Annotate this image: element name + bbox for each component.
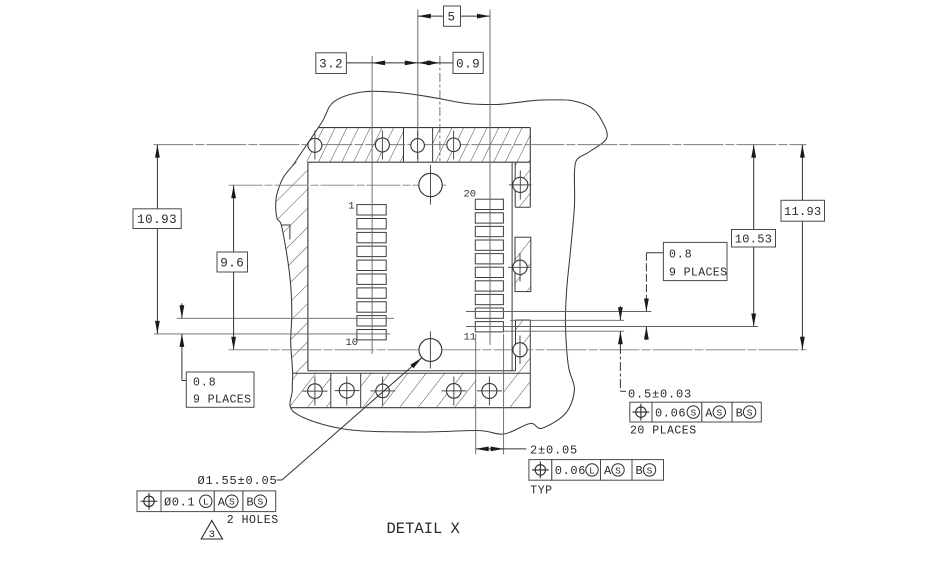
svg-text:0.06: 0.06 [555, 464, 586, 478]
svg-text:0.06: 0.06 [655, 406, 686, 420]
svg-text:Ø0.1: Ø0.1 [164, 496, 195, 510]
svg-text:3: 3 [209, 529, 215, 541]
centerline big hole top [229, 184, 447, 186]
extension line pad bottom left [154, 333, 390, 335]
svg-text:11: 11 [464, 332, 477, 344]
svg-text:S: S [716, 408, 722, 419]
svg-text:9.6: 9.6 [220, 256, 244, 270]
extension line pad bottom right [503, 330, 624, 332]
svg-text:B: B [636, 464, 643, 478]
svg-text:10.53: 10.53 [735, 232, 773, 246]
svg-text:1: 1 [348, 201, 354, 213]
extension line 0.9 right [439, 56, 441, 161]
svg-text:0.9: 0.9 [456, 57, 480, 71]
svg-text:X: X [451, 520, 461, 538]
extension line 2-dim left [475, 334, 477, 454]
svg-text:2±0.05: 2±0.05 [530, 444, 578, 458]
hole C3 strip3 [513, 336, 527, 365]
hole C1 strip1 [509, 171, 532, 200]
svg-text:TYP: TYP [530, 485, 552, 498]
hatch top band [290, 128, 404, 162]
svg-text:11.93: 11.93 [784, 205, 822, 219]
socket cavity edges [307, 162, 309, 371]
hatch mount strips [515, 163, 530, 208]
centerline bottom hole row [229, 349, 807, 351]
extension line pad length right upper [510, 319, 624, 321]
dimension 0.9 [418, 52, 483, 73]
hole A2 top band [375, 131, 389, 160]
svg-text:0.8: 0.8 [193, 377, 217, 390]
svg-text:0.8: 0.8 [669, 249, 693, 262]
extension line hole column [417, 10, 419, 164]
socket top band edges [288, 127, 530, 129]
hole B1 bottom band [303, 377, 328, 406]
feature control frame 20 PLACES [630, 402, 762, 437]
svg-text:A: A [705, 406, 713, 420]
break outline (wavy boundary) [276, 91, 608, 434]
svg-text:S: S [747, 408, 753, 419]
pin label 11 [464, 332, 477, 344]
dimension 0.8 9 PLACES left [180, 303, 255, 407]
contact pads 20-11 (right column) [475, 199, 503, 209]
svg-text:B: B [246, 496, 253, 510]
svg-text:S: S [690, 408, 696, 419]
svg-text:S: S [229, 497, 235, 508]
note triangle 3 [201, 521, 222, 542]
outer edge notch top-left [281, 224, 291, 226]
dimension 10.93 [133, 145, 181, 334]
extension line left pad column [371, 56, 373, 354]
pin label 1 [348, 201, 354, 213]
extension line pad gap right upper [466, 311, 651, 313]
socket bottom band edges [290, 372, 530, 374]
svg-text:S: S [258, 497, 264, 508]
hole C2 strip2 [508, 253, 531, 282]
feature control frame 2 HOLES [137, 491, 279, 527]
dimension 11.93 [781, 145, 825, 350]
svg-text:DETAIL: DETAIL [387, 520, 443, 538]
svg-text:S: S [647, 465, 653, 476]
svg-text:S: S [615, 465, 621, 476]
hatch left band [274, 162, 308, 373]
svg-text:5: 5 [447, 11, 456, 25]
svg-text:10.93: 10.93 [137, 213, 177, 227]
label 0.5±0.03 [628, 388, 692, 402]
svg-text:3.2: 3.2 [319, 58, 343, 72]
dimension 0.8 9 PLACES right [644, 242, 727, 340]
big hole bottom (2 holes) [419, 332, 442, 369]
extension line right pad column [489, 10, 491, 346]
centerline top hole row [153, 144, 806, 146]
hatch bottom band [290, 373, 331, 407]
extension line pad gap right lower [466, 326, 758, 328]
svg-text:20 PLACES: 20 PLACES [630, 425, 697, 438]
dimension 10.53 [732, 145, 776, 327]
svg-text:L: L [203, 497, 209, 508]
svg-text:A: A [604, 464, 612, 478]
dimension 3.2 [316, 53, 453, 74]
extension line pad gap left upper [177, 317, 394, 319]
dimension 2±0.05 [476, 444, 578, 458]
svg-text:B: B [736, 406, 743, 420]
hole B3 bottom band [371, 377, 396, 406]
hole B2 bottom band [335, 377, 360, 406]
mount strip 1 [514, 163, 516, 208]
big hole top (2 holes) [419, 165, 442, 205]
hole B4 bottom band [442, 377, 467, 406]
svg-text:2 HOLES: 2 HOLES [227, 514, 279, 527]
mount strip 3 [515, 320, 517, 371]
svg-text:9 PLACES: 9 PLACES [669, 267, 727, 280]
leader Ø1.55±0.05 [198, 358, 422, 488]
title DETAIL X [387, 520, 461, 538]
svg-text:0.5±0.03: 0.5±0.03 [628, 388, 692, 402]
contact pads 1-10 (left column) [357, 205, 386, 215]
pin label 20 [464, 189, 477, 201]
feature control frame TYP [529, 460, 664, 498]
svg-text:9 PLACES: 9 PLACES [193, 394, 251, 407]
dimension 5 [418, 6, 490, 26]
svg-text:A: A [218, 496, 226, 510]
pin label 10 [346, 337, 359, 349]
dimension 0.5±0.03 leader [618, 306, 626, 391]
svg-text:Ø1.55±0.05: Ø1.55±0.05 [198, 474, 278, 488]
mount strip 2 [515, 237, 531, 291]
svg-text:10: 10 [346, 337, 359, 349]
socket body section (hatched frame, clipped by break outline) [274, 128, 531, 408]
hole A3 top band [411, 131, 425, 160]
dimension 9.6 [217, 185, 248, 350]
svg-text:L: L [589, 465, 595, 476]
hole A4 top band [447, 131, 461, 160]
svg-text:20: 20 [464, 189, 477, 201]
extension line 2-dim right [503, 334, 505, 454]
hole A1 top band [308, 131, 322, 160]
hole B5 bottom band [477, 377, 502, 406]
